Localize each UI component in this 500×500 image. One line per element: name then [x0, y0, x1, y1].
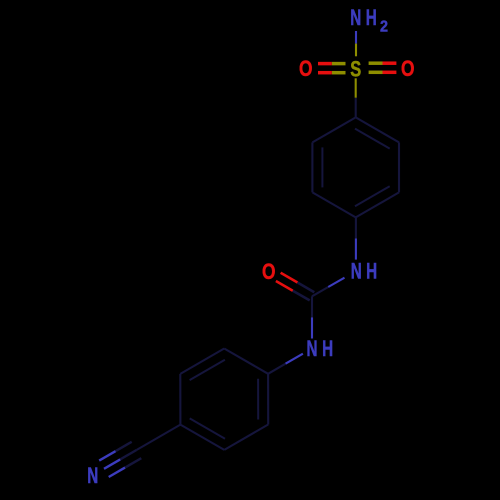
atom label NH (urea, upper) [351, 259, 377, 284]
double bond S=O left [318, 64, 346, 73]
svg-text:N: N [351, 259, 362, 284]
bond NH-C (urea N to carbonyl C) [312, 278, 345, 297]
double bond S=O right [369, 63, 397, 72]
atom label O (urea carbonyl) [262, 259, 276, 284]
atom label S (sulfonyl) [350, 56, 361, 81]
bond N-S (sulfonamide N to S) [355, 31, 357, 56]
ring2 aromatic inner lines [190, 360, 259, 439]
atom label NH2 (sulfonamide) [350, 5, 388, 35]
svg-text:O: O [299, 56, 313, 81]
bond C4'-C (ring2 to nitrile C) [137, 425, 181, 450]
ring1 aromatic inner lines [322, 129, 389, 207]
bond C-NH (carbonyl C to second urea N) [311, 296, 313, 338]
svg-text:H: H [322, 336, 333, 361]
atom label NH (urea, lower) [307, 336, 334, 361]
bond C4-N (ring1 to urea NH) [355, 217, 357, 259]
svg-text:2: 2 [380, 19, 388, 36]
svg-text:O: O [262, 259, 276, 284]
svg-text:N: N [350, 5, 361, 30]
svg-text:S: S [350, 56, 361, 81]
triple bond C#N (nitrile) [99, 442, 141, 477]
bond NH-C1' (second urea N to ring2) [268, 354, 303, 374]
atom label O right [401, 56, 415, 81]
svg-text:N: N [87, 463, 98, 488]
double bond C=O (urea carbonyl) [276, 273, 314, 301]
atom label O left [299, 56, 313, 81]
svg-text:O: O [401, 56, 415, 81]
svg-text:N: N [307, 336, 318, 361]
bond S-C1 (S to ring1) [355, 78, 357, 117]
benzene ring2 edges [180, 349, 268, 450]
atom label N (nitrile) [87, 463, 98, 488]
svg-text:H: H [366, 5, 377, 30]
svg-text:H: H [366, 259, 377, 284]
benzene ring1 edges [312, 117, 399, 217]
